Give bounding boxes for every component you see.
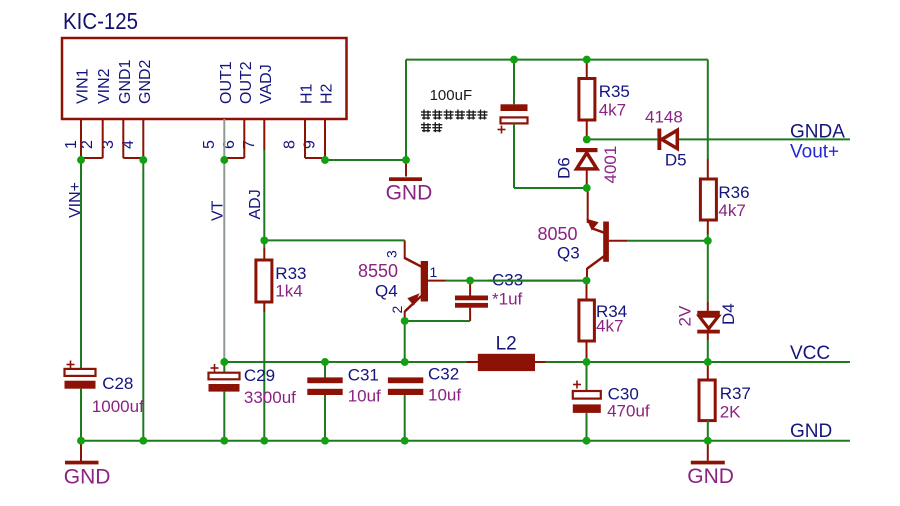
svg-text:5: 5 bbox=[201, 140, 218, 149]
svg-text:KIC-125: KIC-125 bbox=[63, 8, 138, 34]
svg-text:4001: 4001 bbox=[601, 146, 620, 184]
svg-text:VIN+: VIN+ bbox=[67, 182, 84, 218]
svg-text:L2: L2 bbox=[496, 334, 517, 355]
svg-text:C31: C31 bbox=[348, 366, 379, 385]
svg-text:H2: H2 bbox=[319, 83, 336, 104]
svg-text:4k7: 4k7 bbox=[718, 201, 745, 220]
svg-text:VT: VT bbox=[210, 200, 227, 221]
svg-text:2V: 2V bbox=[676, 305, 695, 326]
svg-text:470uf: 470uf bbox=[607, 402, 650, 421]
svg-text:10uf: 10uf bbox=[428, 386, 461, 405]
svg-text:OUT2: OUT2 bbox=[238, 61, 255, 104]
svg-text:ADJ: ADJ bbox=[247, 189, 264, 219]
svg-text:GND: GND bbox=[386, 182, 433, 205]
svg-text:1000uf: 1000uf bbox=[92, 397, 144, 416]
svg-text:R37: R37 bbox=[720, 384, 751, 403]
svg-text:4148: 4148 bbox=[645, 108, 683, 127]
svg-text:2K: 2K bbox=[720, 403, 741, 422]
svg-text:GND: GND bbox=[790, 421, 832, 442]
svg-text:10uf: 10uf bbox=[348, 387, 381, 406]
svg-text:R35: R35 bbox=[599, 82, 630, 101]
svg-text:1k4: 1k4 bbox=[275, 282, 302, 301]
svg-text:8050: 8050 bbox=[538, 224, 578, 244]
svg-text:VIN1: VIN1 bbox=[75, 68, 92, 104]
svg-text:4k7: 4k7 bbox=[599, 101, 626, 120]
svg-text:*1uf: *1uf bbox=[492, 290, 523, 309]
svg-text:C32: C32 bbox=[428, 365, 459, 384]
svg-text:GND: GND bbox=[64, 465, 111, 488]
svg-text:Q4: Q4 bbox=[375, 282, 398, 301]
svg-text:VADJ: VADJ bbox=[258, 64, 275, 104]
svg-text:Vout+: Vout+ bbox=[790, 142, 839, 163]
svg-text:4k7: 4k7 bbox=[596, 317, 623, 336]
svg-text:3: 3 bbox=[384, 250, 400, 258]
svg-text:D4: D4 bbox=[719, 303, 738, 325]
svg-text:GND: GND bbox=[687, 465, 734, 488]
svg-text:8550: 8550 bbox=[358, 261, 398, 281]
svg-text:8: 8 bbox=[282, 140, 299, 149]
svg-text:C28: C28 bbox=[102, 374, 133, 393]
svg-text:2: 2 bbox=[389, 306, 405, 314]
svg-text:GNDA: GNDA bbox=[790, 122, 845, 143]
svg-text:GND2: GND2 bbox=[137, 59, 154, 104]
svg-text:D6: D6 bbox=[555, 157, 574, 179]
svg-text:GND1: GND1 bbox=[117, 59, 134, 104]
svg-text:100uF: 100uF bbox=[430, 87, 473, 104]
svg-text:VCC: VCC bbox=[790, 343, 830, 364]
svg-text:D5: D5 bbox=[665, 151, 687, 170]
svg-text:Q3: Q3 bbox=[557, 244, 580, 263]
svg-text:R33: R33 bbox=[275, 264, 306, 283]
svg-text:1: 1 bbox=[430, 264, 438, 280]
svg-text:R36: R36 bbox=[718, 183, 749, 202]
svg-text:1: 1 bbox=[63, 140, 80, 149]
svg-text:3300uf: 3300uf bbox=[244, 388, 296, 407]
svg-text:VIN2: VIN2 bbox=[96, 68, 113, 104]
svg-text:H1: H1 bbox=[299, 83, 316, 104]
svg-text:OUT1: OUT1 bbox=[218, 61, 235, 104]
svg-text:C29: C29 bbox=[244, 366, 275, 385]
